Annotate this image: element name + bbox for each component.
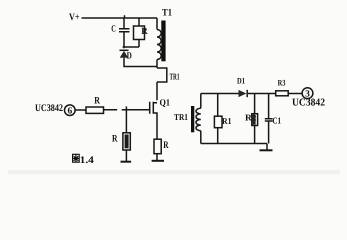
svg-text:TR1: TR1 [170,71,180,81]
wire secondary loop bottom [201,143,267,145]
ground source [152,160,164,162]
resistor R gate [86,107,104,113]
wire gate [104,109,150,111]
svg-text:T1: T1 [162,7,172,18]
transformer TR1 secondary core [191,106,194,132]
transformer T1 core [161,21,165,62]
resistor R3 [276,91,289,96]
transformer TR1 secondary winding [196,94,201,144]
resistor R source [156,116,158,161]
capacitor C [119,15,130,47]
svg-text:R: R [112,134,118,145]
capacitor C1 [265,94,273,144]
ground gate pulldown [121,161,132,163]
diode D1 [239,90,247,97]
svg-text:R: R [163,140,169,151]
svg-text:Q1: Q1 [160,99,171,109]
wire V+ rail and transformer T1 primary winding [82,18,162,68]
scan fade on gate wire [117,109,122,111]
diode D [120,49,129,51]
svg-text:1.4: 1.4 [80,155,94,166]
svg-text:UC3842: UC3842 [292,98,325,109]
svg-text:6: 6 [68,107,73,117]
svg-text:D1: D1 [237,75,245,85]
svg-text:V+: V+ [69,12,80,23]
svg-text:TR1: TR1 [174,112,188,122]
IC UC3842 pin 3 circle [302,88,313,99]
svg-text:C: C [111,24,116,34]
wire pin6 to gate resistor [75,109,86,111]
node gate junction tick [125,106,127,109]
svg-text:UC3842: UC3842 [35,103,63,114]
resistor R gate pulldown [125,110,127,161]
svg-text:R3: R3 [278,77,286,87]
resistor R2 [254,94,256,144]
scan artifact smudge [8,170,340,175]
wire secondary loop top [201,93,239,95]
ground output [266,144,268,150]
wire RC bottom [124,46,139,48]
wire clamp to drain node [124,58,157,67]
IC UC3842 pin 6 circle [65,105,76,116]
svg-text:R: R [94,95,100,106]
resistor R snubber [138,18,140,47]
svg-text:R1: R1 [222,116,232,126]
figure caption 图1.4 [73,154,80,162]
node RC junction [123,46,126,49]
svg-text:C1: C1 [272,115,281,125]
current transformer TR1 primary loop [157,68,167,100]
transistor Q1 [150,102,157,116]
resistor R1 [217,94,219,144]
